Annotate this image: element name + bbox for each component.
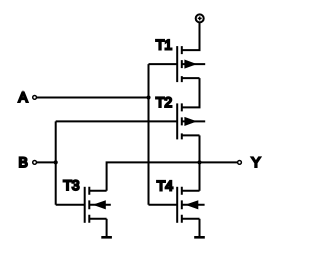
junction output node bbox=[197, 160, 201, 164]
svg-text:T1: T1 bbox=[156, 36, 173, 52]
wire A bus vertical bbox=[148, 64, 150, 205]
wire VDD to T1 drain bbox=[182, 23, 200, 50]
wire T4 drain to output node bbox=[199, 162, 201, 190]
wire A to T1 gate bbox=[149, 63, 178, 65]
node B terminal bbox=[33, 161, 37, 165]
svg-text:T4: T4 bbox=[157, 177, 174, 193]
node Y terminal bbox=[238, 161, 242, 165]
transistor T2 bbox=[177, 103, 205, 139]
wire input A bbox=[37, 97, 149, 99]
junction node B bbox=[54, 160, 58, 164]
ground (T4) bbox=[194, 236, 205, 239]
svg-text:Y: Y bbox=[251, 154, 261, 170]
svg-text:B: B bbox=[19, 154, 28, 170]
power supply VDD terminal bbox=[196, 14, 204, 22]
wire B to T3 gate bbox=[56, 204, 85, 206]
wire B bus vertical bbox=[55, 121, 57, 204]
ground (T3) bbox=[101, 236, 112, 239]
wire T4 source to ground bbox=[199, 219, 201, 236]
svg-text:A: A bbox=[18, 89, 28, 105]
svg-text:T2: T2 bbox=[156, 94, 173, 110]
wire T3 source to ground bbox=[106, 219, 108, 236]
node A terminal bbox=[33, 96, 37, 100]
wire T2 source to output node bbox=[199, 135, 201, 162]
junction node A bbox=[146, 95, 150, 99]
svg-text:T3: T3 bbox=[63, 177, 80, 193]
wire T1 source to T2 drain bbox=[182, 78, 200, 107]
transistor T3 bbox=[85, 187, 111, 223]
wire A to T4 gate bbox=[149, 204, 178, 206]
transistor T4 bbox=[177, 187, 204, 223]
wire output rail Y bbox=[107, 162, 238, 190]
wire input B bbox=[37, 161, 56, 163]
transistor T1 bbox=[177, 46, 205, 82]
wire B to T2 gate bbox=[56, 120, 178, 122]
